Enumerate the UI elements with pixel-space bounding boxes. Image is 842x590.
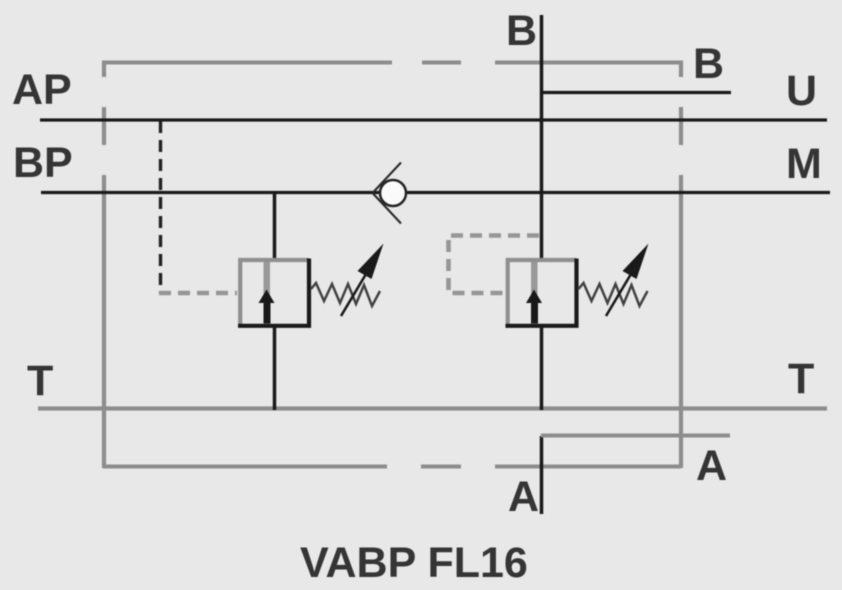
relief valve V1 adjustment arrow bbox=[341, 244, 384, 317]
svg-text:A: A bbox=[696, 442, 727, 490]
relief valve V2 internal arrow bbox=[526, 262, 542, 324]
svg-text:BP: BP bbox=[13, 139, 73, 187]
relief valve V1 internal arrow bbox=[259, 262, 275, 324]
pilot line V2 (dashed) bbox=[449, 236, 540, 294]
relief valve V2 adjustment arrow bbox=[606, 244, 649, 317]
relief valve V1 spring bbox=[311, 283, 380, 306]
wire valve V2 outlet (valve to T) bbox=[540, 326, 544, 410]
wire T line bbox=[38, 406, 827, 410]
svg-text:A: A bbox=[508, 473, 539, 521]
wire AP-U line bbox=[40, 118, 827, 121]
check valve bbox=[373, 163, 407, 224]
svg-text:T: T bbox=[788, 355, 814, 403]
enclosure bottom border bbox=[103, 465, 681, 469]
enclosure left border bbox=[102, 61, 106, 469]
relief valve V2 spring bbox=[579, 283, 648, 306]
pilot line V1 vertical (dashed) bbox=[159, 121, 162, 293]
wire A branch vertical bbox=[540, 436, 544, 514]
svg-text:T: T bbox=[27, 357, 53, 405]
enclosure top border bbox=[103, 61, 681, 65]
svg-text:M: M bbox=[786, 140, 822, 188]
wire BP-M line bbox=[41, 191, 830, 194]
wire valve V1 inlet (BP to valve) bbox=[273, 192, 277, 260]
wire valve V1 outlet (valve to T) bbox=[273, 326, 277, 410]
svg-text:B: B bbox=[693, 40, 724, 88]
pilot line V1 horizontal (dashed) bbox=[159, 291, 237, 296]
svg-text:U: U bbox=[786, 67, 817, 115]
wire A branch horizontal bbox=[541, 434, 730, 438]
svg-text:B: B bbox=[506, 7, 537, 55]
svg-text:VABP FL16: VABP FL16 bbox=[300, 539, 528, 587]
wire B branch vertical bbox=[540, 15, 544, 259]
relief valve V1 body bbox=[238, 259, 309, 327]
enclosure right border bbox=[679, 61, 683, 469]
svg-text:AP: AP bbox=[12, 66, 72, 114]
wire B branch horizontal bbox=[540, 91, 731, 94]
relief valve V2 body bbox=[506, 259, 577, 327]
